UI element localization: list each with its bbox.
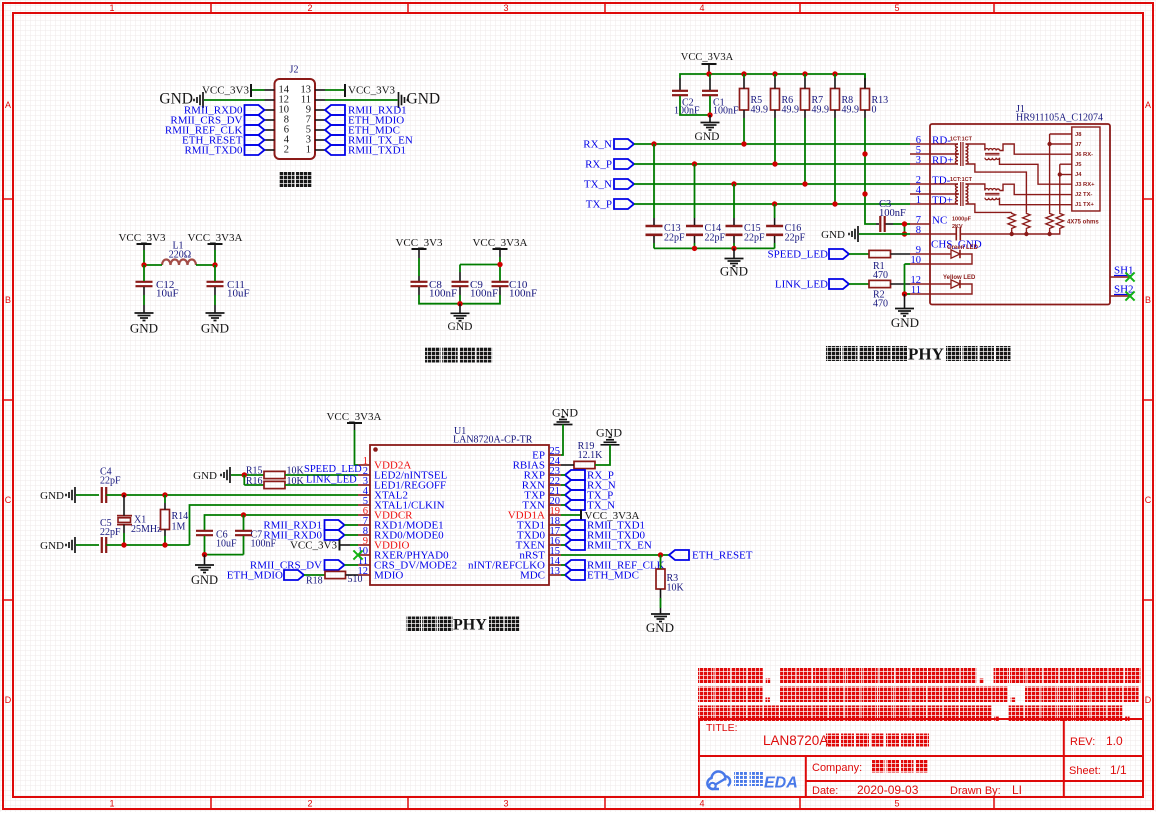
wire bbox=[346, 574, 359, 576]
svg-text:1: 1 bbox=[916, 195, 921, 206]
svg-text:100nF: 100nF bbox=[429, 288, 457, 300]
svg-text:Drawn By:: Drawn By: bbox=[950, 785, 1001, 797]
wire bbox=[804, 74, 806, 78]
wire bbox=[905, 223, 911, 225]
node junction bbox=[241, 512, 246, 517]
wire bbox=[849, 283, 869, 285]
J1 internal wiring RD primary bbox=[930, 143, 958, 145]
svg-text:10uF: 10uF bbox=[227, 288, 250, 300]
node junction bbox=[741, 141, 746, 146]
J1 internal wiring TD secondary bbox=[966, 184, 985, 191]
resistor R7 bbox=[801, 89, 810, 111]
J1 internal wiring RD secondary bbox=[966, 144, 985, 151]
logo EasyEDA bbox=[707, 771, 730, 789]
U1 pin 19 bbox=[549, 514, 561, 516]
J1 internal wiring J8/J7 bbox=[1050, 133, 1072, 135]
wire bbox=[849, 253, 869, 255]
wire bbox=[891, 253, 911, 255]
U1 pin 6 bbox=[358, 514, 370, 516]
svg-text:4: 4 bbox=[699, 3, 704, 13]
svg-text:2KV: 2KV bbox=[952, 224, 963, 230]
wire bbox=[859, 233, 910, 235]
svg-text:GND: GND bbox=[891, 315, 919, 330]
resistor R1 470 bbox=[869, 250, 891, 257]
svg-text:LINK_LED: LINK_LED bbox=[306, 475, 357, 486]
svg-text:1/1: 1/1 bbox=[1110, 763, 1127, 777]
resistor R6 bbox=[771, 89, 780, 111]
svg-text:GND: GND bbox=[40, 490, 64, 502]
node junction bbox=[651, 141, 656, 146]
J2 pin 7 bbox=[315, 119, 325, 121]
svg-text:49.9: 49.9 bbox=[751, 105, 769, 116]
svg-text:3: 3 bbox=[503, 799, 508, 809]
svg-text:GND: GND bbox=[130, 321, 158, 336]
wire bbox=[325, 89, 344, 91]
U1 pin 16 bbox=[549, 544, 561, 546]
wire bbox=[694, 164, 696, 218]
J2 pin 5 bbox=[315, 129, 325, 131]
svg-text:GND: GND bbox=[720, 264, 748, 279]
svg-text:EDA: EDA bbox=[764, 775, 798, 792]
svg-text:ETH_MDIO: ETH_MDIO bbox=[227, 570, 283, 582]
U1 pin 7 bbox=[358, 524, 370, 526]
svg-text:J7: J7 bbox=[1075, 142, 1081, 148]
connector J1 body bbox=[930, 124, 1110, 305]
U1 pin 21 bbox=[549, 494, 561, 496]
common-mode choke (TD) bbox=[985, 189, 1000, 191]
IC U1 body bbox=[370, 445, 549, 585]
wire bbox=[345, 564, 359, 566]
J1 pin 6 bbox=[910, 143, 930, 145]
U1 pin 4 bbox=[358, 494, 370, 496]
svg-text:VCC_3V3: VCC_3V3 bbox=[202, 85, 250, 97]
J1 pin 2 bbox=[910, 183, 930, 185]
wire bbox=[354, 423, 356, 430]
svg-text:22pF: 22pF bbox=[785, 233, 806, 244]
J1 pin 4 bbox=[910, 193, 930, 195]
svg-text:1M: 1M bbox=[172, 522, 186, 533]
wire bbox=[204, 99, 265, 101]
warning note line 1 bbox=[698, 668, 714, 684]
J1 pin 1 bbox=[910, 203, 930, 205]
svg-text:R18: R18 bbox=[306, 576, 323, 587]
svg-text:1: 1 bbox=[109, 3, 114, 13]
svg-text:SH1: SH1 bbox=[1114, 265, 1134, 277]
svg-text:GND: GND bbox=[407, 91, 441, 108]
svg-text:C: C bbox=[1145, 495, 1152, 505]
svg-text:10: 10 bbox=[911, 255, 922, 266]
node junction bbox=[902, 221, 907, 226]
net flag RMII_TXD0 bbox=[565, 530, 585, 540]
section title 电源滤波 bbox=[425, 347, 441, 363]
svg-text:49.9: 49.9 bbox=[782, 105, 800, 116]
svg-text:GND: GND bbox=[821, 229, 845, 241]
svg-text:VCC_3V3A: VCC_3V3A bbox=[681, 52, 734, 63]
svg-text:0: 0 bbox=[872, 105, 877, 116]
wire bbox=[252, 89, 265, 91]
wire bbox=[864, 74, 866, 78]
node junction bbox=[707, 112, 712, 117]
node junction bbox=[772, 71, 777, 76]
node junction bbox=[772, 201, 777, 206]
svg-text:SPEED_LED: SPEED_LED bbox=[304, 464, 362, 475]
svg-text:PHY: PHY bbox=[908, 345, 944, 364]
J1 pin 11 bbox=[910, 293, 930, 295]
svg-text:RX_N: RX_N bbox=[583, 139, 612, 151]
J2 pin 1 bbox=[315, 149, 325, 151]
net flag TX_P bbox=[565, 490, 585, 500]
wire bbox=[891, 283, 911, 285]
svg-text:SPEED_LED: SPEED_LED bbox=[768, 249, 829, 261]
node junction bbox=[802, 181, 807, 186]
wire bbox=[680, 96, 710, 115]
node junction bbox=[706, 71, 711, 76]
wire bbox=[204, 536, 206, 555]
section title 以太网PHY芯片 bbox=[407, 617, 422, 632]
svg-text:J2: J2 bbox=[290, 65, 299, 76]
svg-text:J2 TX-: J2 TX- bbox=[1075, 192, 1092, 198]
J2 pin 9 bbox=[315, 109, 325, 111]
wire bbox=[106, 494, 124, 496]
wire bbox=[654, 247, 775, 249]
U1 pin 17 bbox=[549, 534, 561, 536]
ground GND (C1) bbox=[709, 115, 711, 123]
J1 pin 5 bbox=[910, 153, 930, 155]
wire bbox=[231, 474, 264, 476]
U1 pin 24 bbox=[549, 464, 561, 466]
svg-text:D: D bbox=[5, 695, 12, 705]
svg-text:22pF: 22pF bbox=[705, 233, 726, 244]
resistor R8 bbox=[831, 89, 840, 111]
svg-text:A: A bbox=[5, 100, 11, 110]
svg-text:C: C bbox=[5, 495, 12, 505]
svg-text:Sheet:: Sheet: bbox=[1069, 765, 1101, 777]
wire bbox=[876, 223, 879, 225]
wire bbox=[774, 74, 776, 78]
svg-text:GND: GND bbox=[646, 620, 674, 635]
net flag RX_N bbox=[565, 480, 585, 490]
svg-text:13: 13 bbox=[550, 566, 561, 577]
U1 pin 14 bbox=[549, 564, 561, 566]
wire bbox=[561, 504, 565, 506]
wire bbox=[345, 524, 359, 526]
resistor R2 470 bbox=[869, 280, 891, 287]
J1 internal wiring J5/J4 bbox=[1060, 163, 1072, 165]
svg-text:PHY: PHY bbox=[453, 617, 487, 634]
net flag RMII_TXD1 bbox=[565, 520, 585, 530]
wire bbox=[634, 163, 910, 165]
J2 pin 2 bbox=[265, 149, 275, 151]
wire bbox=[595, 445, 610, 465]
svg-text:1: 1 bbox=[306, 145, 311, 156]
node junction bbox=[141, 262, 146, 267]
svg-text:2: 2 bbox=[284, 145, 289, 156]
U1 pin 23 bbox=[549, 474, 561, 476]
svg-text:Date:: Date: bbox=[812, 785, 838, 797]
svg-text:SH2: SH2 bbox=[1114, 284, 1134, 296]
J2 pin 10 bbox=[265, 109, 275, 111]
svg-text:11: 11 bbox=[911, 285, 921, 296]
svg-text:3: 3 bbox=[916, 155, 921, 166]
wire bbox=[561, 484, 565, 486]
wire bbox=[340, 544, 351, 546]
svg-text:LAN8720A-CP-TR: LAN8720A-CP-TR bbox=[453, 435, 533, 446]
resistor R13 bbox=[861, 89, 870, 111]
wire bbox=[499, 249, 501, 257]
wire bbox=[743, 74, 745, 78]
U1 pin 10 bbox=[358, 554, 370, 556]
warning note line 2 bbox=[698, 687, 714, 703]
svg-text:RMII_TXD0: RMII_TXD0 bbox=[184, 145, 243, 157]
svg-text:TX_P: TX_P bbox=[586, 199, 612, 211]
wire bbox=[164, 495, 166, 503]
ground GND (C13-C16) bbox=[733, 248, 735, 258]
svg-text:VCC_3V3A: VCC_3V3A bbox=[326, 411, 381, 423]
svg-text:GND: GND bbox=[193, 470, 217, 482]
wire power rail bbox=[679, 78, 681, 90]
U1 pin 8 bbox=[358, 534, 370, 536]
J1 internal CHS_GND rail bbox=[930, 233, 956, 235]
svg-text:GND: GND bbox=[695, 131, 720, 143]
svg-text:R16: R16 bbox=[246, 476, 263, 487]
J1 pin 3 bbox=[910, 163, 930, 165]
wire nRST bbox=[561, 554, 669, 556]
resistor R5 bbox=[740, 89, 749, 111]
svg-text:49.9: 49.9 bbox=[842, 105, 860, 116]
svg-text:A: A bbox=[1145, 100, 1151, 110]
svg-text:49.9: 49.9 bbox=[812, 105, 830, 116]
wire bbox=[561, 494, 565, 496]
svg-text:LI: LI bbox=[1012, 783, 1022, 797]
svg-text:1CT:1CT: 1CT:1CT bbox=[950, 177, 973, 183]
U1 pin 5 bbox=[358, 504, 370, 506]
svg-text:R14: R14 bbox=[172, 511, 189, 522]
node junction bbox=[731, 246, 736, 251]
node junction bbox=[658, 552, 663, 557]
node junction bbox=[862, 151, 867, 156]
svg-text:1: 1 bbox=[109, 799, 114, 809]
node junction bbox=[242, 472, 247, 477]
J1 internal wiring TD primary bbox=[930, 183, 958, 185]
J1 pin 12 bbox=[910, 283, 930, 285]
svg-text:100nF: 100nF bbox=[713, 106, 739, 117]
title block bbox=[699, 719, 1143, 797]
svg-text:VCC_3V3: VCC_3V3 bbox=[118, 232, 166, 244]
wire bbox=[243, 515, 245, 530]
wire bbox=[460, 264, 500, 266]
svg-text:RMII_TXD1: RMII_TXD1 bbox=[348, 145, 406, 157]
svg-text:3: 3 bbox=[503, 3, 508, 13]
svg-text:VCC_3V3: VCC_3V3 bbox=[348, 85, 396, 97]
J2 pin 14 bbox=[265, 89, 275, 91]
U1 pin 18 bbox=[549, 524, 561, 526]
svg-text:1.0: 1.0 bbox=[1106, 734, 1123, 748]
U1 pin 9 bbox=[358, 544, 370, 546]
wire bbox=[418, 249, 420, 258]
node junction bbox=[772, 161, 777, 166]
svg-text:100nF: 100nF bbox=[509, 288, 537, 300]
net flag ETH_MDC bbox=[565, 570, 585, 580]
U1 pin 25 bbox=[549, 454, 561, 456]
wire bbox=[190, 505, 359, 545]
section title 电流驱动型PHY网口电路 bbox=[826, 346, 841, 361]
svg-text:8: 8 bbox=[916, 225, 921, 236]
ground GND (C11) bbox=[206, 312, 225, 314]
wire bbox=[561, 524, 565, 526]
svg-text:22pF: 22pF bbox=[100, 476, 121, 487]
U1 pin 22 bbox=[549, 484, 561, 486]
wire bbox=[214, 265, 216, 281]
J1 inner connector pins bbox=[1072, 127, 1100, 211]
J2 pin 13 bbox=[315, 89, 325, 91]
svg-text:1000pF: 1000pF bbox=[952, 217, 972, 223]
no-connect X SH1 bbox=[1125, 272, 1134, 281]
svg-text:2: 2 bbox=[307, 3, 312, 13]
node junction bbox=[902, 291, 907, 296]
node junction bbox=[457, 301, 462, 306]
svg-text:B: B bbox=[1145, 295, 1151, 305]
net flag RX_P bbox=[565, 470, 585, 480]
J2 pin 6 bbox=[265, 129, 275, 131]
wire bbox=[660, 555, 662, 569]
common-mode choke (RD) bbox=[985, 148, 1000, 150]
wire bbox=[774, 204, 776, 218]
wire bbox=[123, 495, 125, 516]
wire bbox=[834, 74, 836, 78]
node junction bbox=[162, 542, 167, 547]
svg-text:GND: GND bbox=[448, 321, 473, 333]
J1 pin 8 bbox=[910, 233, 930, 235]
node junction bbox=[731, 181, 736, 186]
node junction bbox=[802, 71, 807, 76]
ground GND (C12) bbox=[135, 312, 154, 314]
J2 pin 12 bbox=[265, 99, 275, 101]
node junction bbox=[692, 161, 697, 166]
U1 pin 13 bbox=[549, 574, 561, 576]
wire bbox=[285, 484, 358, 486]
node junction bbox=[121, 492, 126, 497]
J1 pin 7 bbox=[910, 223, 930, 225]
node junction bbox=[832, 201, 837, 206]
svg-text:LAN8720A: LAN8720A bbox=[763, 733, 828, 748]
ground GND (C6/C7) bbox=[204, 555, 206, 565]
connector J2 bbox=[275, 79, 316, 159]
svg-text:1CT:1CT: 1CT:1CT bbox=[950, 137, 973, 143]
J1 pin 9 bbox=[910, 253, 930, 255]
wire bbox=[143, 265, 145, 281]
wire bbox=[304, 574, 325, 576]
wire bbox=[561, 534, 565, 536]
svg-text:100nF: 100nF bbox=[879, 208, 906, 219]
wire bbox=[634, 143, 910, 145]
svg-text:VCC_3V3A: VCC_3V3A bbox=[472, 237, 527, 249]
svg-text:GND: GND bbox=[191, 573, 218, 587]
svg-text:100nF: 100nF bbox=[470, 288, 498, 300]
J2 pin 8 bbox=[265, 119, 275, 121]
svg-text:HR911105A_C12074: HR911105A_C12074 bbox=[1016, 113, 1103, 124]
node junction bbox=[497, 262, 502, 267]
svg-text:25MHz: 25MHz bbox=[131, 524, 162, 535]
wire bbox=[708, 64, 710, 74]
wire bbox=[325, 99, 398, 101]
svg-text:22pF: 22pF bbox=[744, 233, 765, 244]
svg-text:TITLE:: TITLE: bbox=[706, 722, 738, 734]
node junction bbox=[692, 246, 697, 251]
svg-text:D: D bbox=[1145, 695, 1152, 705]
wire bbox=[561, 564, 565, 566]
wire bbox=[561, 544, 565, 546]
node junction bbox=[741, 71, 746, 76]
wire bbox=[709, 74, 711, 78]
wire bbox=[243, 475, 245, 485]
wire bbox=[865, 154, 876, 224]
wire bbox=[733, 184, 735, 218]
node junction bbox=[832, 71, 837, 76]
svg-text:J6 RX-: J6 RX- bbox=[1075, 152, 1093, 158]
wire bbox=[143, 244, 145, 250]
wire bbox=[653, 144, 655, 218]
wire XTAL2 row bbox=[124, 494, 358, 496]
svg-text:470: 470 bbox=[873, 299, 888, 310]
wire bbox=[561, 464, 574, 466]
U1 pin 15 bbox=[549, 554, 561, 556]
wire bbox=[144, 264, 162, 266]
svg-text:ETH_MDC: ETH_MDC bbox=[587, 570, 639, 582]
svg-text:GND: GND bbox=[552, 406, 578, 420]
wire bbox=[561, 474, 565, 476]
node junction bbox=[202, 552, 207, 557]
J1 pin 10 bbox=[910, 263, 930, 265]
svg-text:VCC_3V3: VCC_3V3 bbox=[395, 237, 443, 249]
svg-text:J3 RX+: J3 RX+ bbox=[1075, 182, 1095, 188]
svg-text:4X75 ohms: 4X75 ohms bbox=[1067, 220, 1099, 226]
wire XTAL1 row bbox=[106, 544, 189, 546]
U1 pin 3 bbox=[358, 484, 370, 486]
wire VDDCR row bbox=[205, 515, 359, 530]
svg-text:470: 470 bbox=[873, 270, 888, 281]
svg-text:VCC_3V3: VCC_3V3 bbox=[290, 540, 338, 552]
svg-text:NC: NC bbox=[932, 215, 947, 227]
svg-text:J8: J8 bbox=[1075, 132, 1082, 138]
svg-text:MDC: MDC bbox=[520, 570, 545, 582]
net flag RMII_REF_CLK bbox=[565, 560, 585, 570]
node junction bbox=[212, 262, 217, 267]
svg-text:LINK_LED: LINK_LED bbox=[775, 279, 828, 291]
svg-text:REV:: REV: bbox=[1070, 736, 1095, 748]
wire bbox=[345, 534, 359, 536]
svg-text:RX_P: RX_P bbox=[585, 159, 612, 171]
U1 pin 20 bbox=[549, 504, 561, 506]
warning note line 3 bbox=[698, 706, 714, 722]
section title 接口 bbox=[279, 172, 295, 188]
net flag ETH_RESET bbox=[669, 550, 689, 560]
no-connect X pin10 bbox=[353, 550, 362, 559]
svg-text:10K: 10K bbox=[667, 583, 685, 594]
wire bbox=[561, 425, 563, 456]
net flag TX_N bbox=[565, 500, 585, 510]
power flag VCC_3V3A (VDD1A) bbox=[561, 514, 581, 516]
svg-text:MDIO: MDIO bbox=[374, 570, 403, 582]
svg-text:TX_N: TX_N bbox=[584, 179, 612, 191]
wire bbox=[214, 244, 216, 250]
svg-text:R15: R15 bbox=[246, 466, 263, 477]
svg-text:10uF: 10uF bbox=[156, 288, 179, 300]
svg-text:J4: J4 bbox=[1075, 172, 1082, 178]
svg-text:GND: GND bbox=[201, 321, 229, 336]
svg-text:5: 5 bbox=[894, 799, 899, 809]
svg-text:22pF: 22pF bbox=[664, 233, 685, 244]
svg-text:12.1K: 12.1K bbox=[578, 450, 604, 461]
